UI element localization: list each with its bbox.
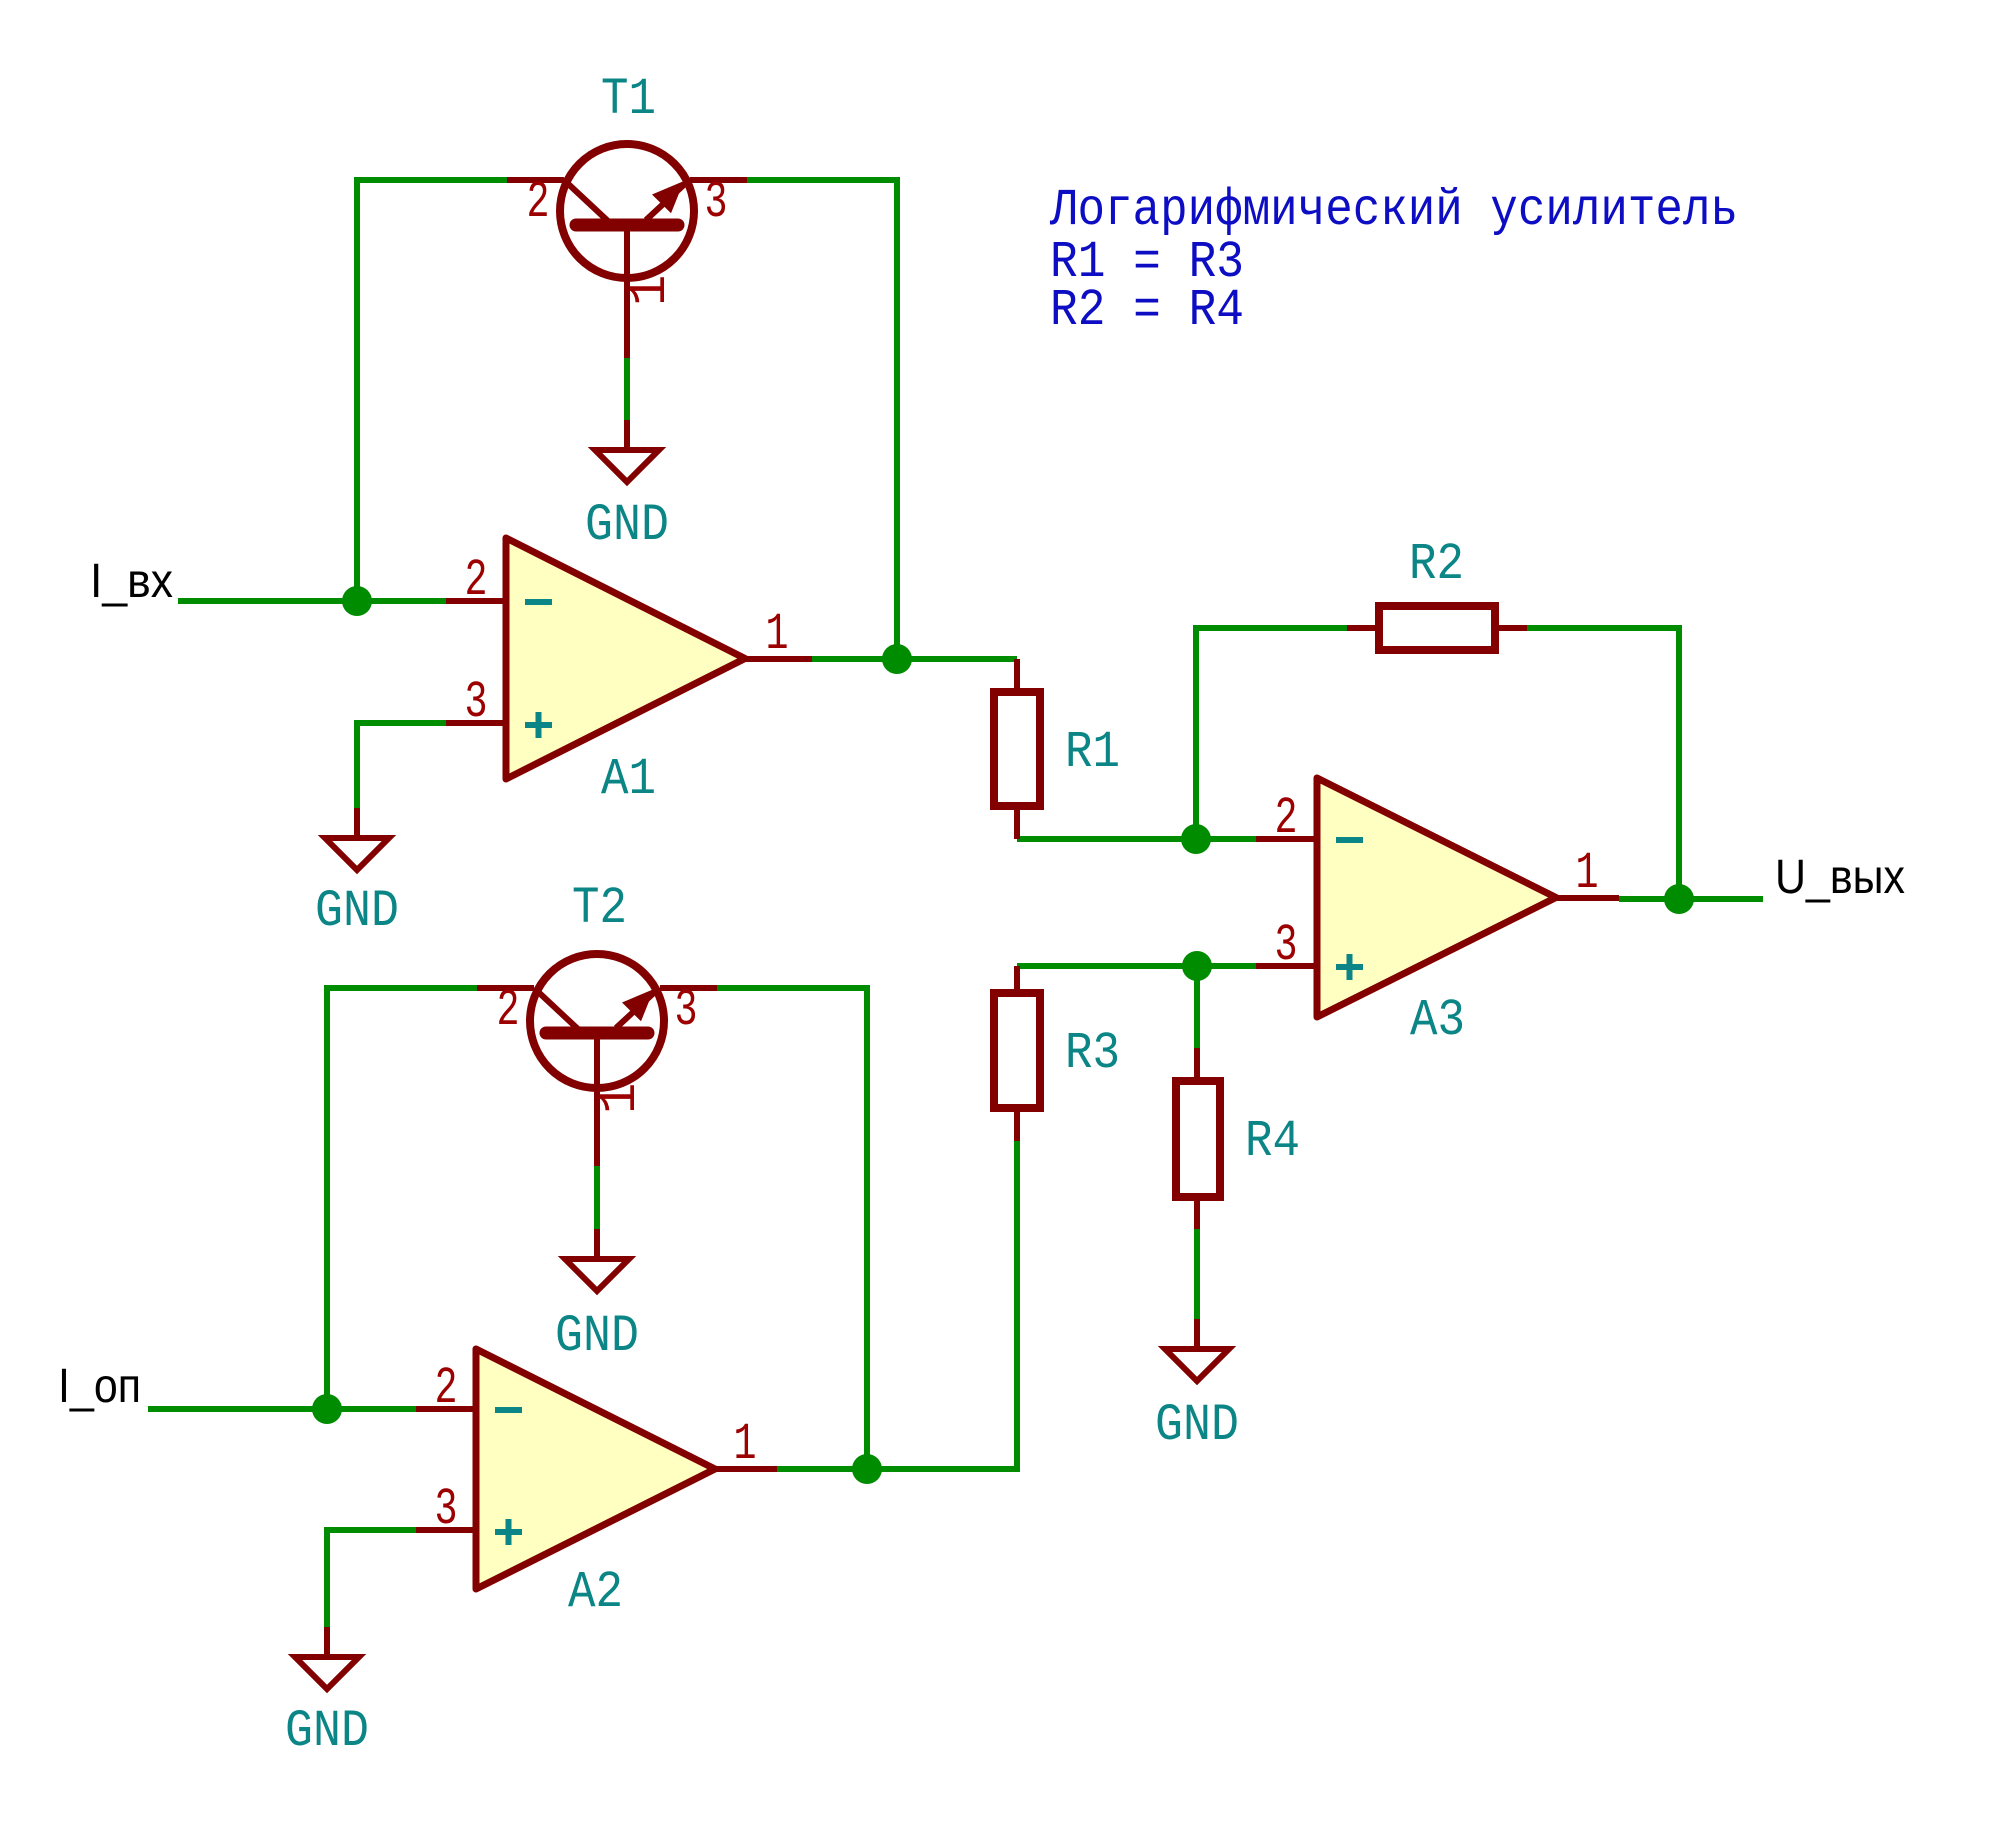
svg-text:3: 3 bbox=[1275, 916, 1298, 975]
svg-text:1: 1 bbox=[591, 1083, 650, 1114]
svg-text:GND: GND bbox=[315, 882, 399, 941]
svg-text:1: 1 bbox=[1576, 844, 1599, 903]
svg-text:Логарифмический усилитель: Логарифмический усилитель bbox=[1049, 181, 1738, 240]
svg-text:3: 3 bbox=[435, 1480, 458, 1539]
svg-text:T2: T2 bbox=[572, 879, 627, 938]
svg-text:R1: R1 bbox=[1065, 723, 1120, 782]
svg-text:3: 3 bbox=[465, 673, 488, 732]
svg-text:GND: GND bbox=[585, 496, 669, 555]
svg-text:2: 2 bbox=[497, 981, 520, 1040]
svg-text:R4: R4 bbox=[1245, 1112, 1300, 1171]
svg-text:1: 1 bbox=[621, 275, 680, 306]
svg-text:A3: A3 bbox=[1410, 991, 1465, 1050]
svg-text:GND: GND bbox=[555, 1307, 639, 1366]
svg-text:2: 2 bbox=[1275, 789, 1298, 848]
svg-text:R2: R2 bbox=[1409, 535, 1464, 594]
svg-text:1: 1 bbox=[766, 605, 789, 664]
svg-text:U_вых: U_вых bbox=[1775, 851, 1905, 904]
svg-text:3: 3 bbox=[705, 173, 728, 232]
svg-text:GND: GND bbox=[285, 1702, 369, 1761]
svg-text:T1: T1 bbox=[601, 70, 656, 129]
svg-text:2: 2 bbox=[465, 551, 488, 610]
svg-text:R2 = R4: R2 = R4 bbox=[1050, 281, 1244, 340]
svg-text:2: 2 bbox=[527, 173, 550, 232]
svg-text:3: 3 bbox=[675, 981, 698, 1040]
svg-text:I_оп: I_оп bbox=[58, 1360, 141, 1413]
svg-text:2: 2 bbox=[435, 1359, 458, 1418]
svg-text:A1: A1 bbox=[601, 750, 656, 809]
svg-text:A2: A2 bbox=[568, 1563, 623, 1622]
svg-text:1: 1 bbox=[734, 1415, 757, 1474]
svg-text:I_вх: I_вх bbox=[90, 555, 173, 608]
svg-text:R3: R3 bbox=[1065, 1024, 1120, 1083]
svg-text:GND: GND bbox=[1155, 1396, 1239, 1455]
